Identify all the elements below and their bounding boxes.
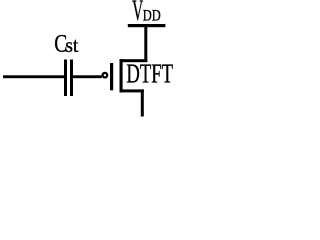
svg-text:DD: DD (143, 7, 161, 25)
svg-text:st: st (65, 35, 78, 58)
svg-text:DTFT: DTFT (126, 59, 173, 89)
svg-text:V: V (132, 0, 143, 28)
